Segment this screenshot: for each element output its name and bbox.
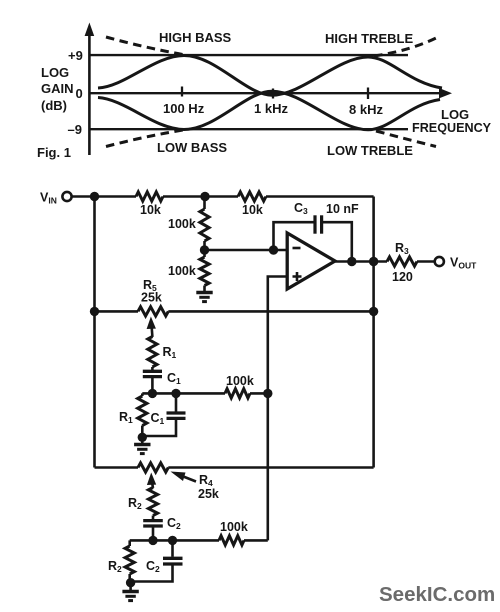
resistor 10k (input) [136, 192, 163, 201]
svg-text:25k: 25k [141, 291, 162, 305]
graph +9 gridline [89, 54, 408, 56]
svg-text:+9: +9 [68, 48, 83, 63]
resistor R2 (shunt) [128, 540, 131, 546]
junction noninverting bus [263, 389, 272, 398]
capacitor C3 plates [313, 215, 316, 233]
dashed extension low bass [106, 130, 183, 147]
resistor 10k (feedback) [238, 192, 266, 201]
junction output/C3 [347, 257, 356, 266]
svg-text:10k: 10k [140, 203, 161, 217]
tick 8 kHz [367, 88, 369, 100]
ground (R1C1) [141, 437, 144, 443]
ground (divider) [196, 291, 212, 294]
svg-text:–9: –9 [68, 122, 82, 137]
svg-text:8 kHz: 8 kHz [349, 102, 383, 117]
svg-text:100k: 100k [168, 217, 196, 231]
svg-text:100 Hz: 100 Hz [163, 101, 205, 116]
dashed extension high bass [106, 37, 183, 55]
svg-text:Fig. 1: Fig. 1 [37, 145, 71, 160]
resistor R1 (series) [148, 337, 157, 367]
capacitor C1 (series) [151, 367, 154, 370]
potentiometer R4 25k [138, 463, 168, 472]
junction node2 b [168, 536, 177, 545]
junction divider top [200, 192, 209, 201]
op-amp minus sign [293, 247, 301, 250]
svg-text:1 kHz: 1 kHz [254, 101, 288, 116]
svg-text:(dB): (dB) [41, 98, 67, 113]
svg-text:25k: 25k [198, 487, 219, 501]
potentiometer R5 25k [138, 307, 168, 316]
svg-text:LOG: LOG [41, 65, 69, 80]
svg-text:100k: 100k [220, 520, 248, 534]
wire top row [72, 195, 136, 198]
tick 100 Hz [181, 87, 183, 97]
wiper arrow R4 [152, 482, 153, 488]
junction node1 b [171, 389, 180, 398]
svg-text:100k: 100k [226, 374, 254, 388]
wiper arrow R5 [150, 326, 153, 337]
tick 1 kHz [272, 89, 274, 99]
resistor R1 (shunt) [141, 393, 144, 396]
resistor R2 (series) [148, 488, 157, 516]
junction output bus/R5 [369, 307, 378, 316]
svg-text:10 nF: 10 nF [326, 202, 359, 216]
wire op-amp output [335, 260, 387, 263]
junction left/R5 [90, 307, 99, 316]
wire node2 row [130, 539, 219, 542]
graph 0 axis (log frequency) [89, 92, 441, 94]
junction C3 tap [269, 245, 278, 254]
node VOUT terminal [435, 257, 444, 266]
resistor R3 [387, 257, 417, 266]
capacitor C1 (shunt) [175, 393, 178, 411]
junction node1 a [148, 389, 157, 398]
junction VIN node [90, 192, 99, 201]
junction node2 a [148, 536, 157, 545]
op-amp plus sign [293, 272, 302, 281]
svg-text:120: 120 [392, 270, 413, 284]
capacitor C2 (shunt) [171, 540, 174, 556]
resistor 100k (lower divider) [203, 250, 206, 257]
wire noninverting input [268, 277, 287, 541]
svg-text:HIGH TREBLE: HIGH TREBLE [325, 31, 413, 46]
svg-text:LOG: LOG [441, 107, 469, 122]
resistor 100k (node1) [225, 389, 250, 398]
wire R4 row [95, 466, 139, 469]
wire R5 row [95, 310, 139, 313]
svg-text:FREQUENCY: FREQUENCY [412, 121, 492, 135]
svg-text:10k: 10k [242, 203, 263, 217]
junction divider mid [200, 245, 209, 254]
graph -9 gridline [89, 128, 408, 130]
resistor 100k (upper divider) [200, 209, 209, 241]
ground (R2C2) [129, 583, 132, 590]
bass/treble boost curve (upper) [98, 56, 442, 96]
svg-text:LOW BASS: LOW BASS [157, 140, 227, 155]
wire to inverting input [205, 249, 288, 252]
svg-text:SeekIC.com: SeekIC.com [379, 583, 495, 606]
bass/treble cut curve (lower) [98, 91, 440, 130]
graph y-axis [88, 34, 91, 155]
junction shunt2 bottom [126, 578, 135, 587]
svg-text:GAIN: GAIN [41, 81, 74, 96]
junction output/feedback [369, 257, 378, 266]
svg-text:LOW TREBLE: LOW TREBLE [327, 143, 413, 158]
junction shunt bottom [138, 433, 147, 442]
capacitor C2 (series) [152, 516, 155, 520]
svg-text:HIGH BASS: HIGH BASS [159, 30, 232, 45]
op-amp U1 [287, 233, 335, 289]
wire left bus [93, 197, 96, 468]
dashed extension high treble [374, 36, 440, 56]
svg-text:100k: 100k [168, 264, 196, 278]
resistor 100k (node2) [219, 536, 244, 545]
wire output bus [372, 197, 375, 468]
capacitor C3 feedback loop wires [274, 222, 316, 250]
R4 pointer arrow [182, 476, 196, 482]
svg-text:0: 0 [76, 86, 83, 101]
node VIN terminal [62, 192, 71, 201]
wire divider stub [203, 197, 206, 210]
wire node1 row [142, 392, 225, 395]
dashed extension low treble [376, 131, 436, 147]
